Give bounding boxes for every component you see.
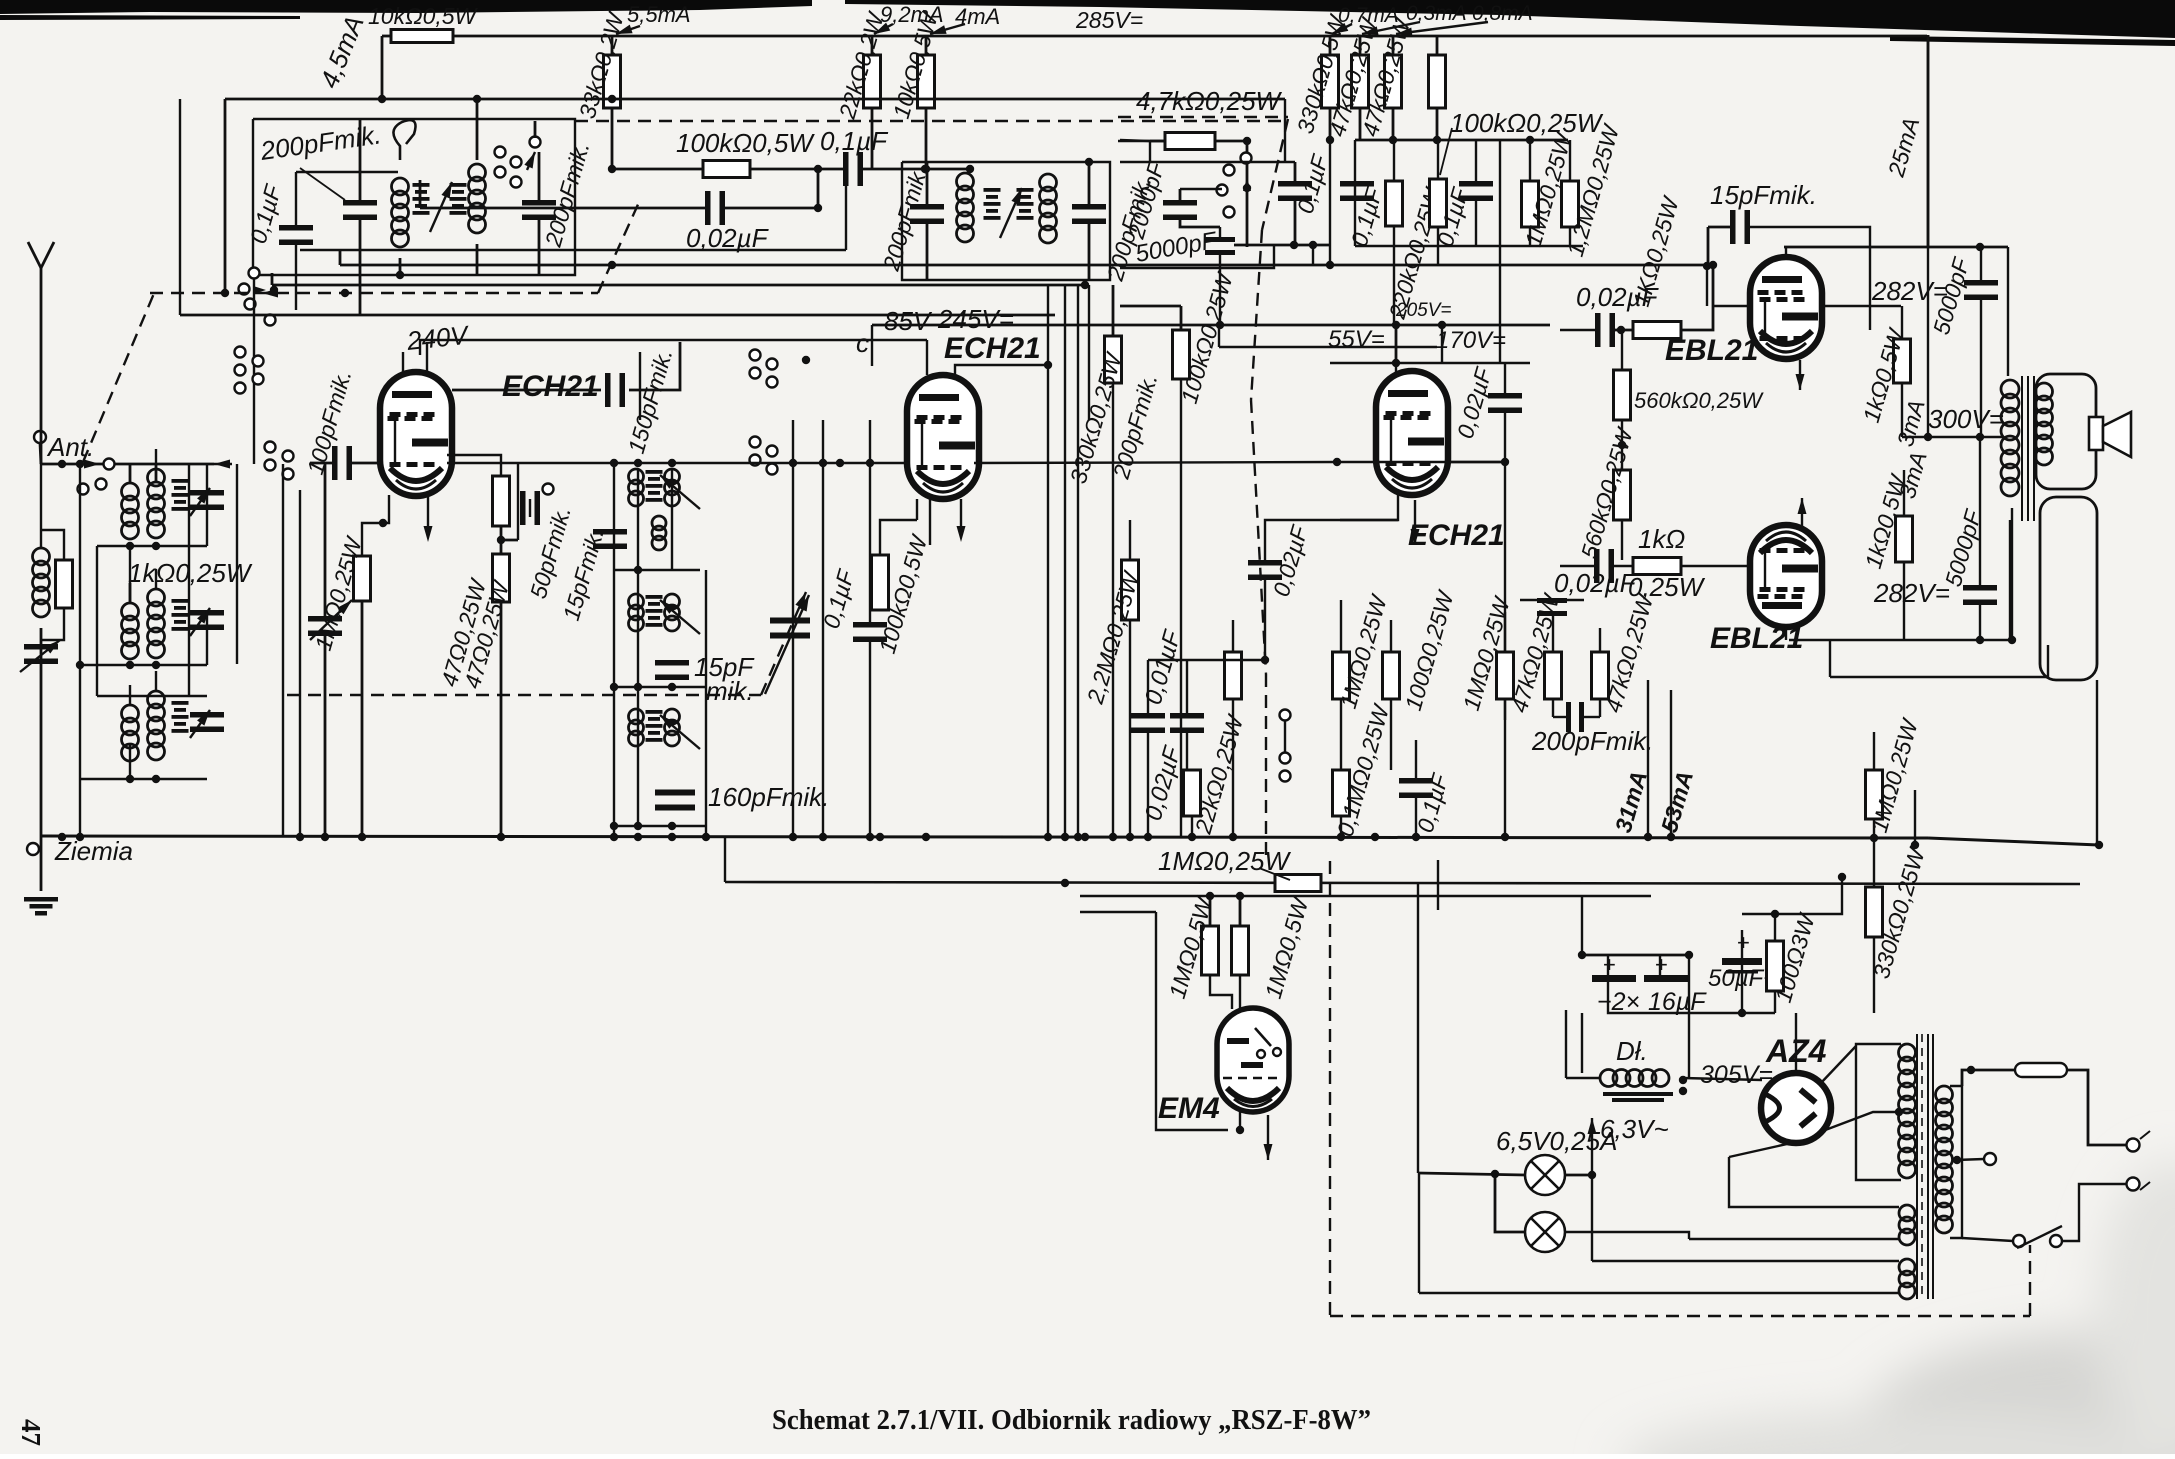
capacitor (190, 712, 224, 732)
arrow wire (657, 712, 700, 749)
coil IF2 primary (957, 173, 974, 242)
capacitor 0,1µF (279, 225, 313, 245)
resistor 33kΩ0,2W (604, 55, 621, 108)
wire (1088, 223, 1091, 280)
svg-text:245V=: 245V= (937, 304, 1014, 334)
arrow (1243, 178, 1251, 191)
variable capacitor antenna trimmer (24, 644, 58, 664)
wire (dashed) (83, 291, 155, 462)
terminal (249, 268, 260, 279)
junction (1188, 833, 1196, 841)
junction (152, 542, 160, 550)
arrow (253, 286, 266, 294)
wire (1186, 732, 1188, 770)
svg-text:200pFmik.: 200pFmik. (1531, 726, 1653, 756)
junction (1588, 1171, 1596, 1179)
junction (819, 833, 827, 841)
junction (497, 833, 505, 841)
wire (129, 583, 132, 603)
wire (1294, 200, 1297, 245)
wire (236, 464, 238, 664)
junction (1243, 184, 1251, 192)
terminal (104, 459, 115, 470)
svg-text:0,02µF: 0,02µF (1554, 568, 1638, 598)
arrow wire (1000, 186, 1026, 238)
junction (1501, 833, 1509, 841)
wire (1180, 306, 1183, 330)
wire (1621, 330, 1623, 370)
resistor 47kΩ 0,25W (1592, 652, 1609, 699)
svg-text:c: c (856, 328, 869, 358)
wire (1621, 420, 1623, 470)
wire (271, 273, 274, 285)
svg-text:160pFmik.: 160pFmik. (708, 782, 829, 812)
variable capacitor tuning (308, 616, 342, 636)
wire (1088, 285, 1090, 420)
wire (1047, 285, 1049, 837)
wire (871, 35, 874, 55)
wire (453, 35, 1927, 38)
wire (880, 520, 917, 555)
junction (634, 459, 642, 467)
junction (1392, 321, 1400, 329)
junction (1371, 833, 1379, 841)
arrow (262, 289, 278, 298)
trimmer core (984, 188, 1001, 220)
coil IF1 secondary (469, 164, 486, 233)
terminal (750, 437, 761, 448)
wire (1120, 140, 1150, 141)
output transformer secondary (2036, 383, 2053, 465)
wire (1607, 955, 1609, 975)
capacitor 15pF mik. (1730, 210, 1750, 244)
wire (1529, 227, 1531, 246)
junction (789, 459, 797, 467)
wire (dashed) (761, 592, 806, 695)
wire (155, 463, 158, 483)
wire (1448, 461, 1505, 463)
tube ECH21 V1 mixer-oscillator (380, 372, 452, 496)
wire (1437, 860, 1439, 910)
wire (2140, 1131, 2150, 1139)
terminal (750, 350, 761, 361)
wire (dashed) (1118, 116, 1288, 118)
wire (dashed) (1329, 861, 1331, 1316)
terminal (34, 431, 46, 443)
wire (1520, 599, 1584, 601)
wire (1191, 816, 1193, 836)
junction (1967, 1066, 1975, 1074)
junction (1679, 1087, 1687, 1095)
resistor 100Ω 0,25W (1383, 652, 1400, 699)
wire (1928, 838, 2099, 845)
wire (639, 352, 641, 420)
wire (1393, 226, 1395, 325)
arrow wire (1588, 1118, 1597, 1175)
terminal (235, 383, 246, 394)
coil (148, 691, 165, 760)
junction (1216, 321, 1224, 329)
capacitor 200pF mik. (522, 200, 556, 220)
wire (1902, 436, 2004, 438)
junction (1526, 136, 1534, 144)
junction (1085, 158, 1093, 166)
resistor 1MΩ 0,25W (1333, 652, 1350, 699)
junction (836, 459, 844, 467)
terminal (1224, 165, 1235, 176)
terminal (96, 479, 107, 490)
trimmer core (413, 183, 430, 215)
terminal (2127, 1178, 2140, 1191)
tube EM4 tuning indicator (1217, 1008, 1289, 1112)
wire (1180, 219, 1220, 227)
svg-text:1kΩ: 1kΩ (1638, 524, 1685, 554)
junction (608, 95, 616, 103)
wire (1156, 912, 1228, 1130)
junction (819, 459, 827, 467)
wire (1264, 579, 1266, 660)
coil antenna (33, 548, 50, 617)
wire (871, 108, 874, 169)
wire (1670, 690, 1672, 838)
resistor 1MΩ 0,25W (354, 556, 371, 601)
wire (1475, 140, 1477, 182)
junction (1144, 833, 1152, 841)
junction (1044, 361, 1052, 369)
arrow wire (1361, 22, 1420, 38)
wire (1329, 140, 1331, 265)
wire (40, 443, 41, 464)
svg-text:10kΩ0,5W: 10kΩ0,5W (368, 3, 479, 29)
capacitor 160pF mik. (655, 790, 695, 811)
terminal (1280, 771, 1291, 782)
wire (40, 300, 43, 464)
wire (1246, 141, 1249, 247)
junction (126, 775, 134, 783)
coil (148, 589, 165, 658)
resistor 100kΩ 0,5W (703, 161, 750, 178)
wire (351, 462, 380, 465)
wire (420, 340, 927, 355)
svg-text:+: + (1603, 952, 1616, 977)
wire (1340, 699, 1342, 836)
wire (1873, 732, 1875, 770)
coil (122, 603, 139, 659)
wire (862, 168, 925, 171)
svg-text:mik.: mik. (706, 676, 754, 706)
wire (1395, 325, 1398, 363)
svg-text:100kΩ0,5W: 100kΩ0,5W (676, 128, 815, 158)
arrow wire (1330, 23, 1352, 38)
wire (1980, 299, 1982, 437)
resistor antenna 1kΩ 0,25W (56, 560, 73, 608)
capacitor 0,02µF (1248, 560, 1282, 580)
wire (1683, 1078, 1762, 1080)
resistor 1MΩ 0,25W (1275, 875, 1321, 892)
wire (724, 838, 726, 882)
wire (822, 420, 824, 836)
terminal (767, 377, 778, 388)
wire (382, 35, 391, 38)
wire (dashed) (1330, 1315, 2030, 1317)
wire (180, 314, 1055, 317)
wire (1437, 140, 1439, 179)
wire (381, 36, 384, 99)
junction (634, 833, 642, 841)
wire (1393, 140, 1395, 181)
junction (922, 833, 930, 841)
choke Dł. (1600, 1070, 1669, 1087)
wire (1729, 1142, 1796, 1157)
junction (1326, 136, 1334, 144)
tube ECH21 V2 IF amplifier (907, 375, 979, 499)
terminal (1224, 207, 1235, 218)
junction (668, 822, 676, 830)
resistor 10kΩ 0,5W (391, 30, 453, 43)
wire (1552, 699, 1554, 717)
arrow wire (190, 605, 214, 636)
wire (1112, 383, 1114, 836)
resistor 1kΩ 0,5W (1894, 339, 1911, 383)
resistor 1kΩ 0,25W (1633, 558, 1681, 575)
trimmer core (172, 701, 189, 733)
wire (28, 242, 54, 268)
svg-text:100kΩ0,25W: 100kΩ0,25W (1450, 108, 1604, 138)
wire (476, 244, 479, 275)
wire (869, 420, 871, 623)
junction (1081, 281, 1089, 289)
wire (1581, 896, 1583, 955)
wire (1355, 139, 1568, 142)
wire (1129, 520, 1131, 560)
arrow wire (190, 485, 214, 516)
wire (1774, 914, 1776, 941)
wire (1239, 975, 1241, 1009)
wire (1613, 565, 1633, 567)
terminal (235, 347, 246, 358)
wire (1504, 699, 1506, 720)
wire (614, 686, 706, 688)
wire (2017, 1226, 2062, 1248)
svg-text:282V=: 282V= (1873, 578, 1950, 608)
trimmer core (646, 595, 663, 627)
resistor 100kΩ 0,25W (1430, 179, 1447, 227)
wire (1475, 200, 1477, 246)
junction (1709, 261, 1717, 269)
junction (58, 833, 66, 841)
junction (1236, 1126, 1244, 1134)
wire (1873, 937, 1875, 1013)
wire (1218, 325, 1220, 347)
capacitor 50pF mik. (520, 491, 540, 525)
junction (1126, 833, 1134, 841)
svg-text:0,3mA: 0,3mA (1406, 2, 1467, 25)
arrow wire (657, 472, 700, 509)
wire (1962, 1070, 2015, 1086)
wire (1582, 954, 1689, 957)
wire (340, 264, 1713, 267)
wire (614, 569, 700, 571)
terminal (750, 455, 761, 466)
capacitor 0,1µF (843, 152, 863, 186)
resistor 1,2MΩ 0,25W (1562, 181, 1579, 227)
capacitor 0,02µF (1488, 393, 1522, 413)
wire (1856, 1044, 1901, 1180)
arrow (795, 590, 810, 608)
resistor (1322, 55, 1339, 108)
wire (1916, 1034, 1918, 1299)
wire (2009, 520, 2011, 640)
trimmer core (1017, 188, 1034, 220)
junction (634, 683, 642, 691)
wire (1785, 247, 1787, 257)
wire (926, 162, 929, 205)
svg-text:5,5mA: 5,5mA (627, 2, 691, 27)
svg-text:560kΩ0,25W: 560kΩ0,25W (1634, 388, 1764, 413)
wire (1950, 1086, 1962, 1238)
wire (1239, 896, 1242, 926)
wire (1330, 362, 1530, 364)
junction (1870, 834, 1878, 842)
wire (1789, 639, 2010, 641)
wire (1689, 1012, 1775, 1014)
wire (1599, 699, 1601, 717)
wire (1436, 35, 1439, 55)
arrow wire (310, 597, 355, 640)
wire (1504, 363, 1506, 394)
wire (476, 99, 479, 160)
junction (876, 833, 884, 841)
terminal (750, 368, 761, 379)
wire (1340, 600, 1342, 652)
wire (1504, 612, 1506, 652)
wire (dashed) (1265, 674, 1267, 855)
capacitor 0,02µF (1537, 598, 1567, 616)
wire (1284, 99, 1286, 162)
wire (1186, 660, 1188, 714)
wire (1830, 645, 2048, 677)
junction (608, 261, 616, 269)
junction (126, 542, 134, 550)
svg-text:285V=: 285V= (1075, 7, 1143, 33)
resistor 1MΩ 0,25W (1497, 652, 1514, 699)
wire (129, 685, 131, 705)
junction (1081, 833, 1089, 841)
wire (1418, 1173, 1525, 1175)
wire (1560, 565, 1595, 567)
trimmer core (172, 479, 189, 511)
wire (324, 635, 327, 836)
junction (1976, 636, 1984, 644)
wire (1294, 162, 1297, 182)
wire (40, 836, 43, 891)
terminal (239, 284, 250, 295)
wire (902, 162, 1110, 280)
wire (1148, 659, 1265, 661)
junction (152, 775, 160, 783)
junction (1491, 1170, 1499, 1178)
wire (447, 462, 908, 464)
svg-text:0,1µF: 0,1µF (820, 126, 889, 156)
junction (1667, 833, 1675, 841)
junction (668, 459, 676, 467)
wire (2011, 508, 2013, 640)
coil (122, 705, 139, 761)
wire (1903, 562, 1905, 640)
terminal (495, 167, 506, 178)
junction (296, 833, 304, 841)
terminal (543, 484, 554, 495)
wire (80, 664, 207, 666)
junction (1976, 433, 1984, 441)
wire (96, 546, 98, 696)
wire (155, 671, 157, 691)
wire (1129, 620, 1131, 836)
resistor 560kΩ 0,25W (1614, 470, 1631, 520)
resistor 22kΩ 0,25W (1184, 770, 1201, 816)
terminal (1217, 185, 1228, 196)
resistor 47Ω 0,25W (493, 554, 510, 602)
junction (921, 165, 929, 173)
wire (1741, 930, 1743, 958)
resistor 0,1MΩ 0,25W (1333, 770, 1350, 816)
wire (2067, 1070, 2127, 1145)
wire (925, 168, 970, 171)
capacitor 0,02µF (1595, 313, 1615, 347)
terminal (265, 442, 276, 453)
wire (339, 250, 342, 265)
wire (1504, 462, 1506, 840)
wire (253, 279, 255, 464)
wire (129, 546, 131, 603)
junction (814, 204, 822, 212)
wire (41, 608, 64, 640)
wire (1355, 245, 1583, 247)
junction (1617, 326, 1625, 334)
wire (188, 464, 190, 696)
wire (253, 119, 575, 275)
capacitor 100pF mik. (332, 446, 352, 480)
junction (1438, 321, 1446, 329)
resistor 47Ω 0,25W (493, 476, 510, 526)
wire (538, 152, 541, 201)
wire (1232, 620, 1234, 652)
wire (1647, 680, 1649, 838)
junction (1618, 441, 1626, 449)
coil (629, 709, 644, 746)
wire (1149, 141, 1151, 162)
wire (324, 463, 327, 617)
wire (97, 695, 207, 697)
wire (1437, 227, 1439, 265)
wire (206, 610, 208, 665)
wire (41, 463, 214, 466)
ground (24, 897, 58, 916)
coil (122, 483, 139, 539)
wire (538, 219, 541, 275)
terminal (265, 460, 276, 471)
junction (396, 271, 404, 279)
coil (629, 469, 644, 506)
wire (1979, 437, 1981, 586)
junction (1685, 951, 1693, 959)
capacitor (190, 490, 224, 510)
wire (1980, 247, 1982, 281)
wire (155, 449, 157, 463)
tube AZ4 rectifier (1761, 1073, 1831, 1143)
wire (282, 464, 284, 836)
wire (960, 499, 962, 532)
